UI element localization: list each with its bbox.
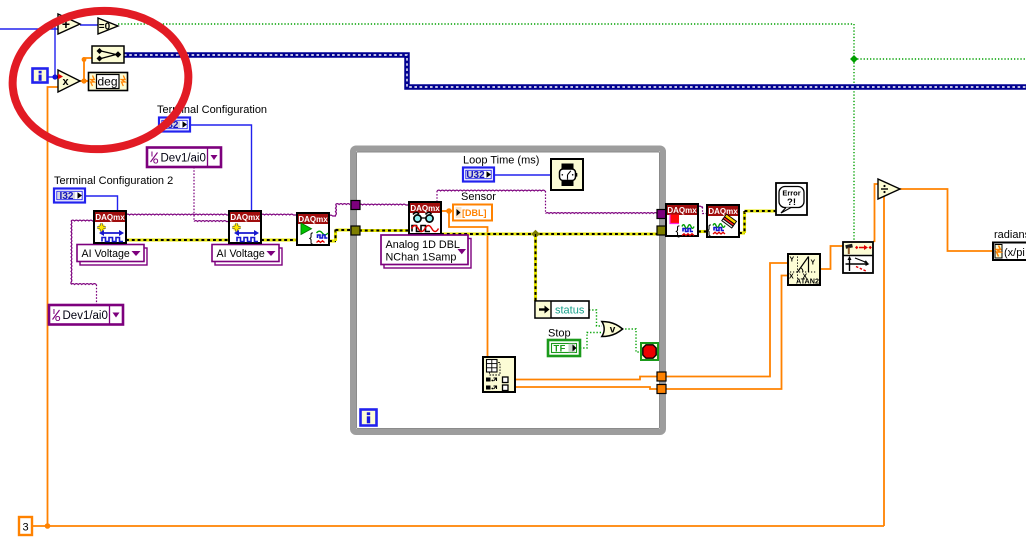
- junction: blue dot at i branch: [52, 74, 57, 79]
- wire: green boolean branch to right edge: [854, 58, 1026, 60]
- constant: Dev1/ai0 (upper): [147, 148, 221, 168]
- svg-text:U32: U32: [466, 170, 485, 181]
- svg-text:{: {: [309, 231, 313, 245]
- wire: orange multiply output up into build-array: [84, 58, 92, 81]
- node: DAQmx Start Task: [297, 213, 329, 245]
- node: DAQmx Stop Task: [666, 204, 698, 236]
- tunnel: task wire left: [351, 201, 360, 210]
- annotation: red ellipse: [7, 4, 194, 157]
- node: Index Array: [483, 357, 515, 392]
- wire: blue from i-junction up to Add upper input: [55, 20, 58, 77]
- wire: blue U32 Loop Time to Wait(ms): [495, 174, 551, 176]
- wire: orange index array output 2 to ATAN2 x input: [515, 276, 788, 390]
- wire: orange index array output 1 to ATAN2 y input: [515, 263, 788, 380]
- wire: green Stop TF to Or gate: [580, 333, 602, 349]
- svg-text:ATAN2: ATAN2: [796, 277, 819, 286]
- wire: blue Terminal Configuration 2 I32 to DAQmx create 1: [86, 196, 118, 211]
- wire: blue Add output to EqualToZero input: [80, 24, 98, 26]
- tunnel: task wire right: [657, 210, 666, 219]
- op: build array node: [92, 46, 124, 63]
- op: Equal To 0? node: [98, 18, 118, 34]
- dropdown: Analog 1D DBL NChan 1Samp: [384, 239, 471, 269]
- wire: task start to loop tunnel: [329, 214, 336, 217]
- svg-text:DAQmx: DAQmx: [410, 204, 440, 213]
- dropdown: AI Voltage 1: [80, 248, 147, 265]
- wire: orange ATAN2 output to dynamic-data node: [820, 246, 843, 269]
- loop iteration terminal i: [361, 410, 377, 426]
- wire: task from DAQmx create1 around to Dev1/ai0 lower constant: [71, 219, 94, 222]
- wire: error create2 to start: [261, 238, 297, 241]
- tunnel: orange data 2: [657, 385, 666, 394]
- constant: 3: [19, 517, 32, 535]
- indicator: Sensor [DBL]: [453, 205, 492, 221]
- junction: error branch dot: [531, 230, 539, 238]
- svg-text:Analog 1D DBL: Analog 1D DBL: [386, 239, 460, 251]
- svg-text:NChan 1Samp: NChan 1Samp: [386, 252, 457, 264]
- svg-text:Sensor: Sensor: [461, 191, 496, 203]
- wire: green boolean from EqualToZero across top: [118, 23, 854, 25]
- wire: blue from i terminal to Multiply: [48, 76, 59, 78]
- svg-text:O: O: [55, 316, 61, 323]
- wire: task tunnel to DAQmx read: [359, 203, 409, 206]
- dropdown: AI Voltage 2: [215, 248, 282, 265]
- wire: orange Divide output to x/pi indicator: [900, 189, 994, 251]
- node: Convert from Dynamic Data: [843, 242, 873, 273]
- svg-text:Dev1/ai0: Dev1/ai0: [63, 310, 108, 322]
- wire: orange vertical from 3 up to Multiply lower input: [48, 87, 59, 526]
- svg-text:Terminal Configuration 2: Terminal Configuration 2: [54, 175, 173, 187]
- wire: task DAQmx read top out to right tunnel: [436, 191, 438, 202]
- node: Simple Error Handler (Error?!): [776, 183, 807, 215]
- wire: error branch down to status: [534, 234, 537, 301]
- wire: error create1 to create2: [126, 238, 229, 241]
- constant: Dev1/ai0 (lower): [49, 305, 123, 325]
- wire: blue Terminal Configuration I32 to DAQmx create 2: [190, 125, 252, 212]
- svg-text:3: 3: [22, 522, 28, 534]
- svg-text:status: status: [555, 305, 585, 317]
- indicator: status: [535, 301, 589, 318]
- wire: orange constant 3 horizontal run: [32, 525, 884, 527]
- tunnel: orange data 1: [657, 372, 666, 381]
- wire: task create2 to start: [261, 213, 297, 216]
- wire: blue from left edge into Add lower input: [0, 28, 58, 30]
- wire: green Or output to loop stop terminal: [622, 329, 641, 352]
- svg-text:radians: radians: [994, 229, 1026, 241]
- wire: error clear-task to error handler: [739, 231, 745, 234]
- node: ATAN2: [788, 254, 820, 285]
- tunnel: error wire left: [351, 226, 360, 235]
- node: DAQmx Create Virtual Channel 2: [229, 211, 261, 243]
- svg-text:O: O: [153, 159, 159, 166]
- coercion dot on multiply input: [58, 74, 63, 80]
- svg-text:AI Voltage: AI Voltage: [217, 248, 265, 260]
- svg-text:AI Voltage: AI Voltage: [82, 248, 130, 260]
- svg-text:I: I: [151, 152, 153, 159]
- op: Or gate: [602, 322, 623, 337]
- wire: error read to right tunnel: [441, 232, 658, 235]
- tunnel: error wire right: [657, 226, 666, 235]
- wire: thick array wire from build-array node to right edge: [124, 55, 1026, 87]
- svg-text:Y: Y: [811, 260, 816, 267]
- svg-text:(x/pi: (x/pi: [1004, 247, 1025, 259]
- svg-text:deg: deg: [97, 75, 117, 89]
- node: Wait (ms) clock: [551, 159, 583, 190]
- junction: orange dot at multiply output: [81, 78, 86, 83]
- wire: error tunnel to read: [359, 229, 409, 232]
- svg-text:TF: TF: [554, 343, 566, 353]
- svg-text:[DBL]: [DBL]: [462, 208, 487, 218]
- wire: orange multiply output to deg unit box: [80, 80, 89, 82]
- wire: orange vertical from 3 up to Divide lower input: [878, 195, 884, 526]
- svg-text:=0: =0: [99, 22, 111, 33]
- terminal: U32 Loop Time: [463, 168, 494, 182]
- node: DAQmx Read: [409, 202, 441, 234]
- svg-text:v: v: [610, 325, 616, 336]
- svg-text:{: {: [707, 223, 711, 237]
- wire: green status to Or gate: [589, 310, 602, 326]
- svg-text:DAQmx: DAQmx: [667, 206, 697, 215]
- svg-text:I32: I32: [60, 191, 74, 202]
- wire: task stop-task to clear-task: [698, 205, 703, 208]
- svg-text:DAQmx: DAQmx: [298, 215, 328, 224]
- wire: orange DAQmx read output to DBL indicator: [441, 210, 453, 212]
- op: Add node: [58, 14, 80, 34]
- node: DAQmx Clear Task: [707, 205, 739, 237]
- svg-text:DAQmx: DAQmx: [230, 213, 260, 222]
- terminal: iteration count i (outside): [33, 69, 48, 83]
- svg-text:X: X: [789, 274, 794, 281]
- wire: orange dynamic-data node output up to Divide upper input: [873, 184, 878, 242]
- wire: orange read output down to index array: [449, 211, 488, 357]
- svg-text:{: {: [676, 224, 680, 238]
- svg-text:DAQmx: DAQmx: [95, 213, 125, 222]
- op: Divide node: [878, 179, 900, 199]
- control: Stop TF boolean: [548, 340, 580, 356]
- terminal: loop condition (stop sign): [641, 343, 658, 360]
- wire: green boolean vertical down to dynamic-data node: [853, 24, 855, 242]
- svg-text:?!: ?!: [787, 197, 796, 208]
- junction: orange dot at read output: [446, 208, 452, 214]
- op: Multiply node: [58, 70, 80, 92]
- junction: green dot: [850, 55, 858, 63]
- wire: error stop-task to clear-task: [698, 230, 707, 233]
- node: DAQmx Create Virtual Channel 1: [94, 211, 126, 243]
- wire: channel Dev1/ai0 upper constant down to create2: [193, 167, 195, 222]
- svg-text:DAQmx: DAQmx: [708, 207, 738, 216]
- svg-text:x: x: [62, 76, 69, 88]
- terminal: I32 Terminal Configuration: [159, 118, 190, 132]
- while loop frame: [353, 149, 663, 433]
- wire: error start to left tunnel: [329, 239, 336, 242]
- terminal: I32 Terminal Configuration 2: [54, 189, 85, 203]
- svg-text:Y: Y: [790, 257, 795, 264]
- svg-text:Loop Time (ms): Loop Time (ms): [463, 155, 539, 167]
- indicator: (x/pi: [993, 243, 1026, 261]
- svg-text:Dev1/ai0: Dev1/ai0: [161, 153, 206, 165]
- svg-text:I: I: [53, 309, 55, 316]
- unit label: deg box: [89, 73, 128, 91]
- wire: task DAQmx create1 to create2: [126, 213, 229, 216]
- svg-text:Stop: Stop: [548, 328, 571, 340]
- junction: orange dot at 3 branch: [45, 523, 51, 529]
